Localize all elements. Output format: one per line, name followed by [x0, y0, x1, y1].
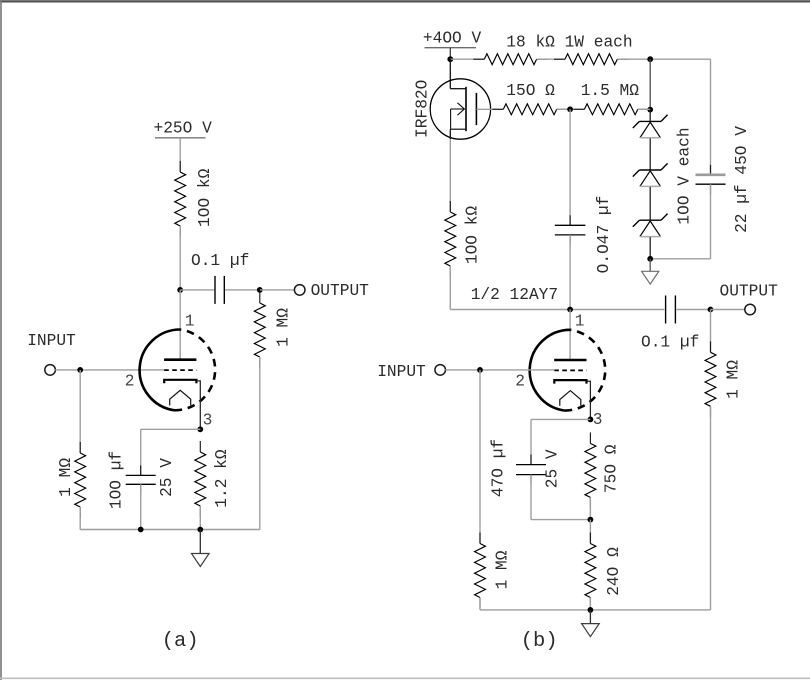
svg-text:OUTPUT: OUTPUT: [720, 282, 779, 300]
svg-text:1OO µf: 1OO µf: [108, 451, 126, 509]
svg-text:3: 3: [593, 411, 603, 429]
svg-text:1 MΩ: 1 MΩ: [275, 308, 293, 347]
svg-text:75O Ω: 75O Ω: [603, 444, 621, 493]
svg-text:+25O V: +25O V: [154, 120, 213, 138]
svg-text:INPUT: INPUT: [377, 363, 426, 381]
svg-text:24O Ω: 24O Ω: [605, 547, 623, 596]
svg-text:1OO kΩ: 1OO kΩ: [463, 206, 481, 265]
svg-text:O.1 µf: O.1 µf: [641, 333, 699, 351]
svg-text:(b): (b): [521, 630, 558, 653]
svg-text:1: 1: [185, 313, 195, 331]
svg-text:25 V: 25 V: [158, 458, 176, 497]
svg-text:1OO V each: 1OO V each: [676, 127, 694, 224]
svg-text:INPUT: INPUT: [27, 332, 76, 350]
svg-text:25 V: 25 V: [543, 449, 561, 488]
svg-text:IRF82O: IRF82O: [414, 80, 432, 138]
svg-text:1OO kΩ: 1OO kΩ: [196, 168, 214, 227]
svg-text:+4OO V: +4OO V: [423, 29, 482, 47]
svg-text:1 MΩ: 1 MΩ: [724, 360, 742, 399]
svg-text:1 MΩ: 1 MΩ: [493, 550, 511, 589]
svg-text:1.5 MΩ: 1.5 MΩ: [581, 82, 640, 100]
svg-text:O.O47 µf: O.O47 µf: [595, 196, 613, 274]
svg-text:18 kΩ 1W each: 18 kΩ 1W each: [506, 33, 632, 51]
svg-text:O.1 µf: O.1 µf: [191, 252, 249, 270]
svg-text:22 µf 45O V: 22 µf 45O V: [733, 126, 751, 233]
svg-text:1/2 12AY7: 1/2 12AY7: [471, 286, 558, 304]
svg-text:(a): (a): [162, 630, 199, 653]
svg-text:1 MΩ: 1 MΩ: [57, 458, 75, 497]
svg-text:3: 3: [203, 411, 213, 429]
svg-text:2: 2: [125, 373, 135, 391]
svg-text:47O µf: 47O µf: [490, 439, 508, 497]
svg-text:1.2 kΩ: 1.2 kΩ: [213, 449, 231, 508]
svg-text:1: 1: [575, 313, 585, 331]
svg-text:15O Ω: 15O Ω: [506, 82, 555, 100]
svg-text:2: 2: [515, 373, 525, 391]
svg-text:OUTPUT: OUTPUT: [311, 282, 370, 300]
